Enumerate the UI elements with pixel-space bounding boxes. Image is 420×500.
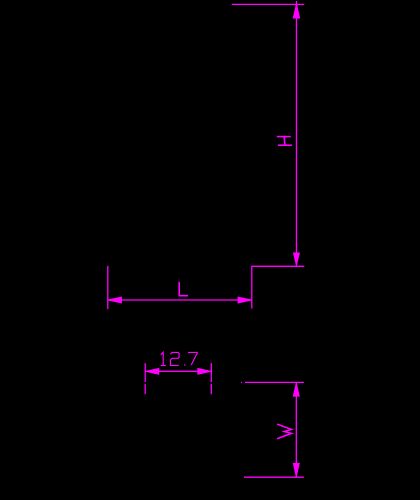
H dimension bottom extension line xyxy=(251,265,304,267)
label L xyxy=(179,282,188,296)
L dimension right extension line xyxy=(251,266,253,308)
12.7 dimension left extension line (lower segment) xyxy=(144,384,146,395)
12.7 dimension left extension line (upper segment) xyxy=(144,363,146,382)
H dimension top arrowhead xyxy=(293,4,300,18)
W dimension top extension line origin dot xyxy=(241,381,242,383)
W dimension top extension line xyxy=(245,381,304,383)
label H (rotated) xyxy=(277,137,292,146)
12.7 dimension left arrowhead xyxy=(146,368,159,374)
12.7 dimension right arrowhead xyxy=(198,368,211,374)
12.7 dimension right extension line (upper segment) xyxy=(210,363,212,382)
L dimension left extension line xyxy=(107,266,109,309)
L dimension right arrowhead xyxy=(238,297,251,303)
12.7 dimension right extension line (lower segment) xyxy=(210,384,212,395)
W dimension top arrowhead xyxy=(293,383,299,396)
12.7 dimension line xyxy=(145,370,211,372)
label 12.7 digit 1 xyxy=(161,352,166,365)
H dimension line xyxy=(295,1,297,266)
H dimension bottom arrowhead xyxy=(294,253,300,266)
label 12.7 digit 7 xyxy=(188,352,197,364)
label 12.7 digit 2 xyxy=(170,352,179,365)
H dimension top extension line xyxy=(232,3,304,5)
W dimension line xyxy=(295,383,297,477)
W dimension bottom extension line xyxy=(244,476,304,478)
L dimension left arrowhead xyxy=(108,297,121,303)
label 12.7 decimal point xyxy=(184,364,185,366)
W dimension bottom arrowhead xyxy=(293,463,299,476)
label W (rotated) xyxy=(277,424,291,439)
L dimension line xyxy=(108,299,251,301)
